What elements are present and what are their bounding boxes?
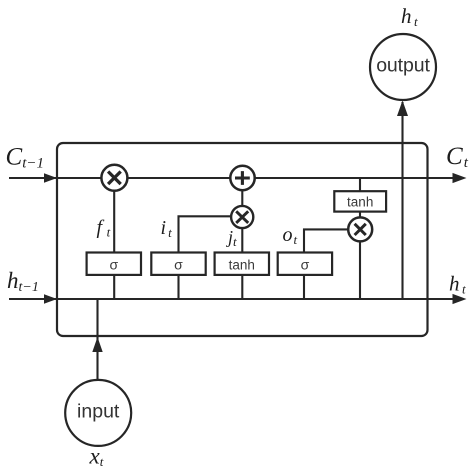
wire output branch up to output node [401, 102, 403, 299]
output node circle [370, 34, 436, 100]
add gate [230, 166, 254, 190]
wire o gate corner to multiply o [304, 229, 349, 299]
wire input up to cell [96, 299, 98, 379]
wire C line (cell state, y=178) [9, 177, 462, 179]
wire f gate vertical [113, 191, 115, 299]
wire tanh branch from C line down through multiply o to h line [359, 178, 361, 299]
arrowhead into output node [397, 101, 408, 117]
svg-text:input: input [77, 401, 120, 423]
arrowhead C into cell [44, 173, 57, 183]
svg-text:ht: ht [401, 4, 418, 29]
svg-text:tanh: tanh [229, 258, 255, 273]
svg-text:σ: σ [301, 257, 310, 273]
svg-text:it: it [161, 217, 173, 240]
tanh box (cell output squashing) [334, 191, 386, 211]
wire i gate vertical and corner to multiply j [179, 216, 232, 299]
svg-text:Ct−1: Ct−1 [6, 143, 44, 171]
arrowhead h_t output [453, 294, 467, 304]
LSTM cell body (rounded rectangle) [57, 143, 428, 336]
svg-text:jt: jt [226, 227, 237, 249]
sigma box i [151, 253, 205, 275]
svg-text:ft: ft [97, 217, 111, 240]
arrowhead input into cell bottom [92, 337, 102, 352]
multiply gate (output path o) [348, 217, 372, 241]
wire j gate vertical [241, 190, 243, 299]
svg-text:ht−1: ht−1 [7, 268, 39, 295]
svg-text:output: output [376, 55, 430, 77]
svg-text:ht: ht [449, 271, 466, 296]
tanh box j [215, 253, 269, 275]
svg-text:Ct: Ct [446, 143, 469, 171]
input node circle [65, 380, 131, 446]
svg-text:σ: σ [109, 257, 118, 273]
wire h line (hidden state, y=299) [9, 298, 462, 300]
svg-text:ot: ot [283, 224, 298, 247]
sigma box o [278, 253, 332, 275]
sigma box f [87, 253, 141, 275]
svg-text:tanh: tanh [347, 195, 373, 210]
arrowhead C_t output [453, 173, 467, 183]
svg-text:xt: xt [89, 444, 104, 470]
svg-text:σ: σ [174, 257, 183, 273]
multiply gate (forget) [101, 165, 127, 191]
arrowhead h into cell [44, 294, 57, 304]
multiply gate (input path j) [231, 206, 253, 228]
